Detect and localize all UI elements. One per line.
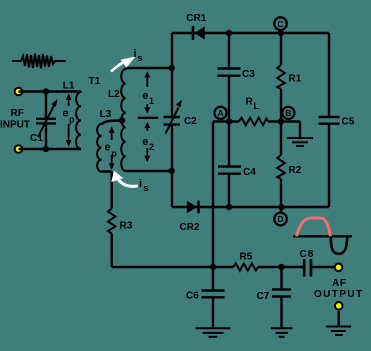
wire RF input top xyxy=(19,90,82,92)
voltage arrow ep tickler down xyxy=(109,155,115,170)
voltage arrow ep tickler up xyxy=(109,127,115,141)
diode CR2 xyxy=(187,201,199,214)
svg-text:R: R xyxy=(246,97,254,108)
ground AF output xyxy=(326,327,351,336)
voltage arrow ep primary up xyxy=(66,94,72,107)
capacitor C8 plates xyxy=(304,259,311,277)
svg-text:CR1: CR1 xyxy=(186,13,206,24)
wire R3 to bottom bus xyxy=(110,234,112,268)
node junction dot C3 top xyxy=(226,30,232,36)
noise signal squiggle xyxy=(12,54,66,69)
wire R1 column upper xyxy=(280,33,282,65)
svg-text:T1: T1 xyxy=(89,76,101,87)
wire C4 to CR2 bus xyxy=(228,175,230,207)
svg-text:C: C xyxy=(277,19,283,29)
svg-text:RF: RF xyxy=(11,108,24,119)
wire R2 to CR2 bus xyxy=(280,179,282,207)
node junction dot D top xyxy=(278,204,284,210)
svg-text:2: 2 xyxy=(149,142,154,152)
svg-text:i: i xyxy=(134,48,137,60)
node junction dot T1 bottom xyxy=(169,168,175,174)
node junction dot B xyxy=(278,118,284,124)
capacitor C1 branch wire lower xyxy=(45,125,47,149)
wire C8 to AF terminal xyxy=(312,266,335,268)
wire top bus xyxy=(172,32,329,34)
terminal AF output top xyxy=(334,263,344,273)
wire L3 bottom xyxy=(102,170,112,172)
terminal RF input top xyxy=(14,87,24,97)
AF sine waveform positive half (red) xyxy=(297,218,331,236)
svg-text:A: A xyxy=(218,108,224,118)
wire A-B left segment xyxy=(213,120,239,122)
resistor R5 xyxy=(234,263,259,270)
wire C5 column upper xyxy=(328,33,330,116)
node junction dot C4 bottom xyxy=(226,204,232,210)
AF sine waveform negative half xyxy=(331,236,348,254)
svg-text:INPUT: INPUT xyxy=(0,120,30,131)
voltage arrow e2 down xyxy=(144,148,150,162)
wire node A drop to bottom bus xyxy=(212,122,214,268)
wire C3 column upper xyxy=(228,33,230,67)
svg-text:C1: C1 xyxy=(30,133,43,144)
node circle A xyxy=(215,107,227,119)
svg-text:CR2: CR2 xyxy=(180,222,200,233)
center tap tick mark xyxy=(138,117,158,119)
node junction dot C7 top xyxy=(278,264,284,270)
current arrow is bottom (white) xyxy=(111,171,138,187)
wire B ground stub xyxy=(299,122,301,138)
wire RF input bottom xyxy=(19,148,82,150)
wire L3 to R3 xyxy=(110,172,112,209)
capacitor C1 branch wire upper xyxy=(45,92,47,118)
capacitor C4 plates xyxy=(218,167,241,174)
wire CR2 bus xyxy=(172,206,329,208)
wire AF bottom terminal to ground xyxy=(338,311,340,326)
svg-text:L: L xyxy=(254,101,260,111)
resistor R3 xyxy=(108,209,116,234)
ground at node B xyxy=(287,138,313,146)
capacitor C6 plates xyxy=(202,291,225,298)
svg-text:B: B xyxy=(285,108,291,118)
terminal RF input bottom xyxy=(14,144,24,154)
svg-text:L1: L1 xyxy=(63,81,75,92)
wire T1 secondary bottom xyxy=(126,170,172,172)
svg-text:p: p xyxy=(111,149,117,159)
capacitor C2 plates xyxy=(164,117,181,125)
node circle B xyxy=(282,107,294,119)
voltage arrow e1 up xyxy=(144,71,150,87)
svg-text:L2: L2 xyxy=(108,89,120,100)
svg-text:R2: R2 xyxy=(289,165,302,176)
wire C6 column xyxy=(212,267,214,289)
svg-text:C7: C7 xyxy=(257,291,270,302)
svg-text:C3: C3 xyxy=(242,69,255,80)
label ep primary xyxy=(63,108,76,125)
svg-text:C8: C8 xyxy=(300,249,315,260)
inductor L3 xyxy=(97,124,101,172)
label is top xyxy=(134,48,143,63)
svg-text:R1: R1 xyxy=(289,74,302,85)
svg-text:e: e xyxy=(105,142,111,154)
capacitor C7 plates xyxy=(272,290,291,297)
diode CR1 xyxy=(193,26,205,40)
ground C7 xyxy=(271,328,293,337)
wire C7 column xyxy=(280,267,282,288)
label e2 xyxy=(142,136,154,152)
svg-text:C5: C5 xyxy=(342,117,355,128)
label AF OUTPUT xyxy=(314,278,364,300)
wire bottom bus middle xyxy=(258,266,304,268)
wire T1 secondary top xyxy=(126,67,172,69)
label is bottom xyxy=(139,178,149,193)
voltage arrow ep primary down xyxy=(66,124,72,147)
inductor L2 xyxy=(121,68,125,171)
svg-text:i: i xyxy=(139,178,142,190)
svg-text:s: s xyxy=(144,183,149,193)
svg-text:C4: C4 xyxy=(243,167,256,178)
node circle D xyxy=(274,207,287,225)
svg-text:C2: C2 xyxy=(184,116,197,127)
node junction dot A xyxy=(226,118,232,124)
wire node A to C4 xyxy=(228,122,230,166)
terminal AF output bottom xyxy=(334,301,344,311)
node junction dot C1 top xyxy=(43,88,49,94)
wire R1 to R2 xyxy=(280,89,282,155)
wire C3 to node A xyxy=(228,77,230,122)
inductor L1 xyxy=(76,92,81,150)
wire secondary column lower xyxy=(171,126,173,208)
resistor RL xyxy=(239,118,268,126)
label e1 xyxy=(142,90,154,106)
capacitor C1 variable arrow xyxy=(38,99,58,137)
svg-text:R3: R3 xyxy=(120,221,133,232)
svg-text:AF: AF xyxy=(332,278,347,289)
wire B right segment xyxy=(268,120,300,122)
capacitor C3 plates xyxy=(218,69,241,76)
wire C7 to ground xyxy=(280,298,282,328)
wire L3 center tap xyxy=(102,121,123,125)
wire bottom bus left xyxy=(112,266,234,268)
svg-text:C6: C6 xyxy=(186,291,199,302)
AF sine waveform baseline xyxy=(293,235,352,237)
wire C5 column lower xyxy=(328,125,330,207)
node junction dot center tap xyxy=(119,117,125,123)
capacitor C1 plates xyxy=(36,119,56,124)
node junction dot T1 top xyxy=(169,65,175,71)
resistor R2 xyxy=(277,155,285,179)
svg-text:e: e xyxy=(142,136,148,148)
capacitor C2 variable arrow xyxy=(166,100,183,134)
svg-text:OUTPUT: OUTPUT xyxy=(314,289,364,300)
node junction dot C6 top xyxy=(210,264,216,270)
svg-text:e: e xyxy=(63,108,69,120)
svg-text:s: s xyxy=(138,53,143,63)
svg-text:1: 1 xyxy=(149,96,154,106)
node junction dot C top xyxy=(278,30,284,36)
wire C6 to ground xyxy=(212,298,214,327)
label RL xyxy=(246,97,260,112)
label RF INPUT xyxy=(0,108,30,131)
wire secondary column upper xyxy=(171,33,173,116)
svg-text:e: e xyxy=(142,90,148,102)
voltage arrow e2 up xyxy=(144,122,150,131)
capacitor C5 plates xyxy=(319,117,340,124)
svg-text:L3: L3 xyxy=(100,109,112,120)
svg-text:R5: R5 xyxy=(240,252,253,263)
label ep tickler xyxy=(105,142,118,159)
voltage arrow e1 down xyxy=(144,104,150,114)
node junction dot C1 bottom xyxy=(43,146,49,152)
svg-text:D: D xyxy=(277,214,283,224)
svg-text:p: p xyxy=(69,115,75,125)
resistor R1 xyxy=(277,65,285,89)
ground C6 xyxy=(196,328,231,337)
current arrow is top (white) xyxy=(111,57,136,72)
node circle C xyxy=(274,17,287,33)
